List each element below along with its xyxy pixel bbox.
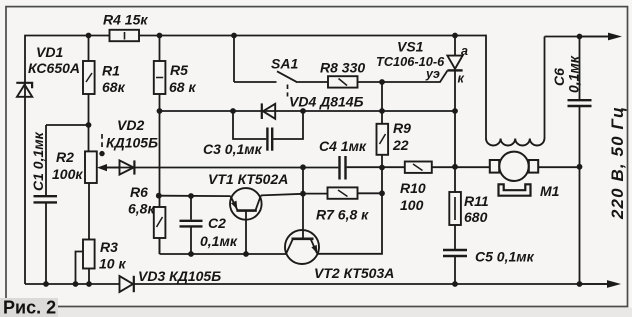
node R11 top junction	[452, 164, 458, 170]
wire: emitter rail y167 right part	[347, 166, 580, 168]
node R3 bottom junction	[86, 281, 92, 287]
wire: VT1 base lead down	[245, 211, 247, 254]
wire: C6 vertical lower	[579, 107, 581, 284]
svg-text:VD2: VD2	[117, 117, 144, 133]
capacitor C6	[568, 100, 592, 106]
wire: R5 branch vertical	[159, 36, 161, 255]
svg-text:VS1: VS1	[397, 39, 424, 55]
potentiometer R2	[85, 151, 120, 183]
node C2 top junction	[188, 193, 194, 199]
svg-text:R5: R5	[170, 62, 188, 78]
svg-text:С3 0,1мк: С3 0,1мк	[203, 141, 263, 157]
wire: top right segment to terminal	[545, 36, 613, 38]
node gate rail junction	[379, 79, 385, 85]
svg-text:VD4 Д814Б: VD4 Д814Б	[289, 94, 364, 110]
wire: VT1 collector wire to VT2 base node	[261, 194, 303, 196]
node C6 top junction	[577, 34, 583, 40]
svg-text:С2: С2	[208, 215, 226, 231]
node VS1 cathode rail junction	[452, 108, 458, 114]
R2 adjustment dashed link	[99, 134, 104, 156]
svg-text:КС650А: КС650А	[28, 60, 80, 76]
svg-text:R4 15к: R4 15к	[103, 12, 148, 28]
wire: winding right side up	[544, 37, 546, 140]
svg-text:VT2 КТ503А: VT2 КТ503А	[314, 265, 394, 281]
node R5 bottom rail junction	[157, 108, 163, 114]
transistor VT2	[285, 230, 319, 264]
wire: R1 branch vertical	[88, 36, 90, 152]
node R3 tap junction	[73, 281, 79, 287]
node R9 top junction	[379, 108, 385, 114]
node C2 bottom junction	[188, 251, 194, 257]
node R9 bottom junction	[379, 165, 385, 171]
diode VD3	[120, 276, 134, 292]
node SA1 branch junction	[231, 33, 237, 39]
svg-text:С4 1мк: С4 1мк	[319, 138, 367, 154]
node VT1 collector VT2 base junction	[300, 191, 306, 197]
wire: R3 bottom lead	[88, 268, 90, 284]
svg-text:к: к	[458, 72, 465, 86]
svg-text:0,1мк: 0,1мк	[566, 55, 582, 93]
svg-text:220 В, 50 Гц: 220 В, 50 Гц	[608, 106, 627, 220]
svg-text:уэ: уэ	[425, 67, 440, 81]
wire: gate rail left of SA1	[234, 81, 277, 83]
svg-text:R1: R1	[102, 63, 120, 79]
wire: R2 to R3 vertical	[88, 183, 90, 239]
wire: SA1 drop from top rail	[233, 36, 235, 83]
wire: bottom link wire y254	[160, 253, 288, 255]
svg-text:SA1: SA1	[271, 56, 298, 72]
svg-text:Рис. 2: Рис. 2	[3, 298, 56, 317]
svg-text:С1 0,1мк: С1 0,1мк	[30, 131, 46, 191]
node VT2 base top junction	[300, 164, 306, 170]
transistor VT1	[230, 188, 262, 220]
wire: VT1 emitter wire from divider	[160, 195, 231, 197]
node R7 right junction	[379, 190, 385, 196]
resistor R4	[110, 30, 140, 41]
node R6 top junction	[156, 193, 162, 199]
resistor R5	[154, 61, 166, 94]
wire: C3 bridge	[233, 111, 303, 139]
svg-text:R11: R11	[464, 193, 489, 209]
svg-text:R7 6,8 к: R7 6,8 к	[316, 207, 369, 223]
wire: C2 vertical bottom	[190, 227, 192, 254]
terminal arrow bottom	[580, 280, 622, 288]
svg-text:VD1: VD1	[36, 44, 63, 60]
resistor R1	[83, 61, 95, 94]
node C1 bottom junction	[43, 281, 49, 287]
svg-text:КД105Б: КД105Б	[106, 135, 158, 151]
wire: bottom rail	[25, 283, 611, 285]
switch SA1	[277, 71, 298, 96]
wire: C1 branch vertical	[45, 125, 47, 195]
wire: R6 bottom corner	[159, 238, 161, 254]
wire: C6 vertical upper	[579, 37, 581, 100]
svg-text:68к: 68к	[102, 79, 126, 95]
trimmer R3	[76, 240, 95, 285]
diode VD2	[120, 160, 135, 174]
node C5 bottom junction	[452, 281, 458, 287]
motor M1	[490, 152, 538, 196]
resistor R7	[328, 187, 358, 198]
svg-text:R2: R2	[56, 149, 74, 165]
resistor R11	[449, 192, 461, 225]
svg-text:22: 22	[392, 137, 409, 153]
svg-text:100: 100	[400, 197, 424, 213]
node C3 left junction	[230, 108, 236, 114]
resistor R10	[405, 162, 432, 173]
svg-text:10 к: 10 к	[99, 256, 126, 272]
node VT1 base junction	[243, 251, 249, 257]
wire: VT2 base vertical	[302, 168, 304, 239]
svg-text:R6: R6	[130, 184, 148, 200]
node C6 bottom junction	[577, 281, 583, 287]
capacitor C4	[340, 156, 346, 180]
thyristor VS1	[447, 56, 462, 71]
wire: C5 to bottom rail	[454, 257, 456, 284]
zener diode VD1	[16, 83, 32, 97]
node R1-R2-C1 junction	[86, 122, 92, 128]
resistor R9	[377, 124, 389, 155]
wire: thyristor cathode down to bottom rail	[454, 70, 456, 249]
wire: C2 vertical top	[190, 196, 192, 220]
wire: top horizontal rail	[24, 35, 486, 37]
wire: left vertical rail	[24, 36, 26, 285]
wire: gate rail SA1 to R8 to thyristor gate	[298, 71, 448, 83]
terminal arrow top	[580, 33, 623, 41]
svg-text:VT1 КТ502А: VT1 КТ502А	[208, 171, 288, 187]
zener diode VD4	[262, 103, 275, 119]
wire: emitter rail y167 left part	[105, 167, 339, 169]
wire: top rail corner down to winding	[485, 35, 487, 139]
svg-text:R10: R10	[400, 180, 426, 196]
svg-text:0,1мк: 0,1мк	[200, 233, 238, 249]
svg-text:6,8к: 6,8к	[128, 201, 155, 217]
wire: R9 R7 VT2-emitter vertical column	[317, 82, 382, 254]
svg-text:VD3 КД105Б: VD3 КД105Б	[138, 268, 221, 284]
svg-text:680: 680	[464, 209, 488, 225]
wire: C1 lower vertical	[45, 203, 47, 284]
svg-text:R3: R3	[100, 239, 118, 255]
wire: thyristor vertical	[454, 36, 456, 57]
winding L1 stator	[486, 139, 544, 146]
page strip below frame	[0, 308, 632, 317]
wire: C1 branch tap horizontal	[46, 124, 89, 126]
node R5 top junction	[157, 33, 163, 39]
wire: R7 horizontal leads	[303, 192, 382, 194]
svg-text:а: а	[461, 44, 468, 58]
capacitor C2	[180, 221, 203, 227]
resistor R6	[154, 207, 166, 238]
node C6 motor junction	[577, 164, 583, 170]
svg-text:С5 0,1мк: С5 0,1мк	[475, 249, 535, 265]
node C3 right junction	[300, 108, 306, 114]
svg-text:R9: R9	[393, 120, 411, 136]
svg-text:100к: 100к	[52, 166, 83, 182]
svg-text:М1: М1	[540, 183, 560, 199]
svg-text:R8 330: R8 330	[320, 60, 365, 76]
capacitor C1	[34, 196, 58, 202]
capacitor C5	[443, 250, 467, 256]
svg-text:68 к: 68 к	[169, 79, 196, 95]
capacitor C3	[267, 128, 272, 151]
resistor R8	[328, 76, 358, 87]
wire: mid rail y111	[160, 110, 456, 112]
caption Рис. 2	[0, 298, 58, 317]
node R1 top junction	[86, 33, 92, 39]
node VS1 anode junction	[452, 33, 458, 39]
